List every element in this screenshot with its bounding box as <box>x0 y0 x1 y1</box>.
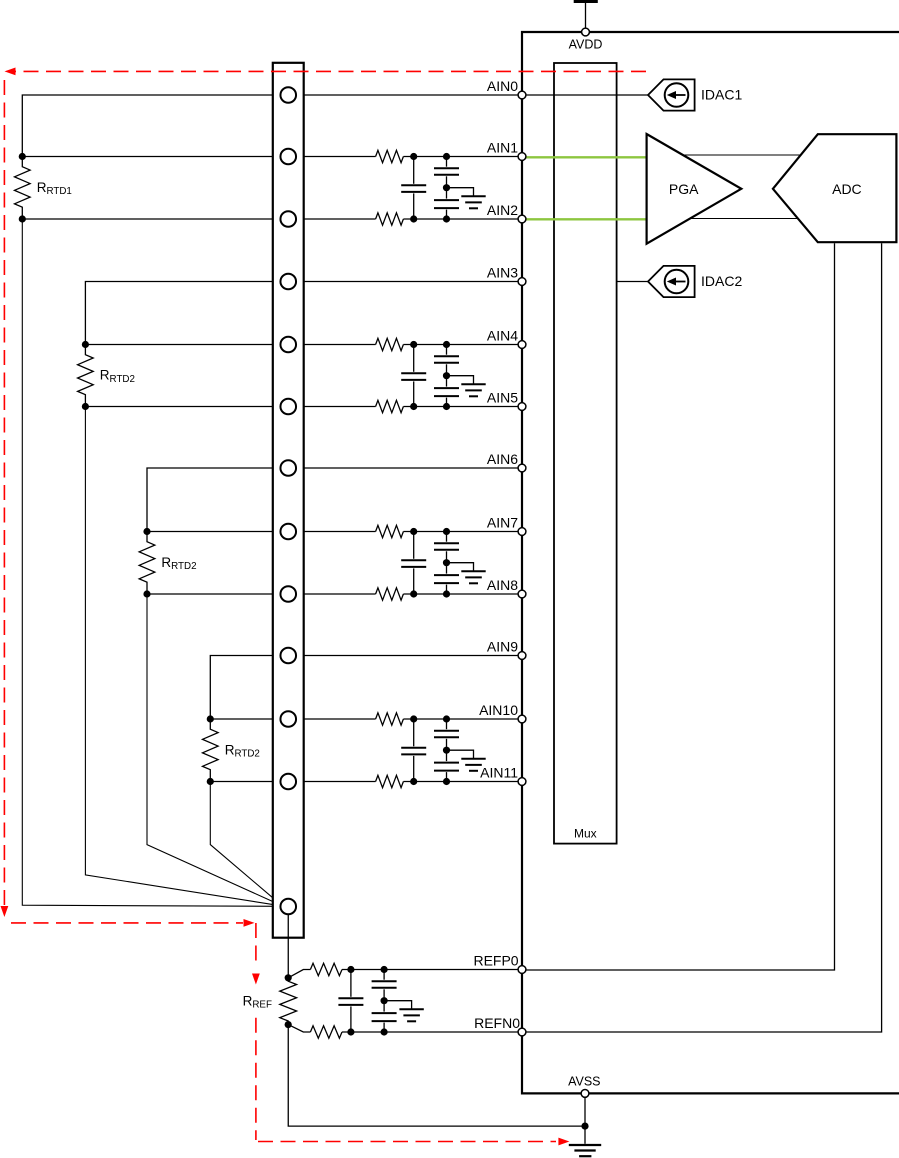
capacitor C cm-bottom 3 <box>434 563 459 594</box>
ground filter 3 <box>461 571 485 583</box>
terminal 4 <box>280 274 296 290</box>
capacitor C diff 4 <box>401 719 426 782</box>
capacitor C cm-bottom 1 <box>434 188 459 219</box>
junction RREF bottom <box>285 1021 292 1028</box>
junction AVSS rail <box>581 1123 588 1130</box>
junction refp-1 <box>347 966 354 973</box>
wire AIN9 terminal to pin <box>294 655 522 657</box>
junction refn-2 <box>381 1028 388 1035</box>
capacitor C ref diff <box>338 970 363 1033</box>
capacitor C diff 1 <box>401 157 426 220</box>
svg-text:AIN10: AIN10 <box>479 702 518 718</box>
current source IDAC1 <box>648 79 695 110</box>
resistor R REFP series <box>310 963 342 975</box>
wire 2a resistor to pin <box>403 344 522 346</box>
resistor RRTD2 <box>203 719 219 782</box>
wire to IDAC2 <box>617 281 648 283</box>
wire AIN10 terminal to filter <box>294 718 376 720</box>
node arrow down-left (red) <box>1 906 9 917</box>
wire RREF to AVSS ground rail <box>288 1025 585 1127</box>
wire return chain 2 <box>85 407 281 906</box>
terminal 10 <box>280 648 296 664</box>
resistor R filter 3b (series, bottom) <box>376 588 404 600</box>
pin AIN3 <box>518 278 526 286</box>
wire ADC to REFP0 <box>526 243 835 970</box>
capacitor C cm-bottom 2 <box>434 376 459 407</box>
svg-text:AIN3: AIN3 <box>487 265 518 281</box>
junction 2a-1 <box>410 341 417 348</box>
svg-text:RRTD2: RRTD2 <box>225 743 260 760</box>
pin AIN7 <box>518 528 526 536</box>
svg-text:RRTD2: RRTD2 <box>100 368 135 385</box>
junction chain4 top <box>207 715 214 722</box>
pin AIN11 <box>518 778 526 786</box>
wire sense top chain 4 <box>210 718 282 720</box>
ground ref filter <box>399 1009 423 1021</box>
terminal 3 <box>280 211 296 227</box>
junction 3a-2 <box>443 528 450 535</box>
wire return chain 3 <box>147 594 281 905</box>
wire return chain 4 <box>210 782 281 905</box>
wire force line AIN0 <box>22 95 282 157</box>
capacitor C cm-top 1 <box>434 157 459 188</box>
ground filter 4 <box>461 759 485 771</box>
junction chain4 bottom <box>207 778 214 785</box>
wire force line AIN6 <box>147 468 282 532</box>
multiplexer Mux box <box>554 63 617 844</box>
wire sense bottom chain 3 <box>147 593 282 595</box>
wire REFP resistor to pin <box>342 969 522 971</box>
wire PGA output bottom to ADC <box>690 218 798 220</box>
pin REFN0 <box>518 1028 526 1036</box>
wire AIN0 terminal to pin <box>294 94 522 96</box>
wire AIN3 terminal to pin <box>294 281 522 283</box>
svg-text:IDAC2: IDAC2 <box>701 273 742 289</box>
capacitor C diff 2 <box>401 345 426 407</box>
resistor R filter 3a (series, top) <box>376 525 404 537</box>
resistor RREF <box>280 978 297 1025</box>
power symbol AVDD supply bar <box>574 0 598 3</box>
wire AVSS pin to ground <box>584 1093 586 1143</box>
terminal 8 <box>280 524 296 540</box>
junction 1a-1 <box>410 153 417 160</box>
resistor R filter 2b (series, bottom) <box>376 400 404 412</box>
wire AIN11 terminal to filter <box>294 781 376 783</box>
junction 3b-2 <box>443 590 450 597</box>
junction 1b-2 <box>443 215 450 222</box>
junction 4-mid <box>443 747 450 754</box>
terminal 12 <box>280 774 296 790</box>
pin AIN0 <box>518 91 526 99</box>
wire mux route AIN2 to PGA (green) <box>523 218 647 220</box>
svg-text:ADC: ADC <box>832 181 862 197</box>
resistor R filter 4a (series, top) <box>376 713 404 725</box>
svg-text:AVSS: AVSS <box>568 1075 600 1089</box>
resistor RRTD1 <box>14 157 30 220</box>
terminal 7 <box>280 460 296 476</box>
wire sense top chain 1 <box>22 156 282 158</box>
wire 3b resistor to pin <box>403 593 522 595</box>
wire sense bottom chain 1 <box>22 218 282 220</box>
junction 2b-1 <box>410 403 417 410</box>
svg-text:AIN11: AIN11 <box>480 765 518 781</box>
capacitor C cm-top 3 <box>434 532 459 563</box>
junction chain3 top <box>143 528 150 535</box>
svg-text:AIN2: AIN2 <box>487 202 518 218</box>
pin AIN2 <box>518 215 526 223</box>
node arrow right-mid (red) <box>244 919 255 927</box>
wire RREF bottom to REFN filter <box>288 1025 310 1032</box>
svg-text:IDAC1: IDAC1 <box>701 87 742 103</box>
svg-text:AIN7: AIN7 <box>487 515 518 531</box>
wire AVDD supply to pin <box>585 2 587 30</box>
wire force line AIN9 <box>210 656 282 720</box>
wire 3a resistor to pin <box>403 531 522 533</box>
wire gnd stub 2 <box>447 376 474 385</box>
wire IDAC current path into RREF (red dashed) <box>255 923 257 966</box>
junction 1a-2 <box>443 153 450 160</box>
wire RREF top to REFP filter <box>288 970 310 978</box>
svg-text:AIN5: AIN5 <box>487 390 518 406</box>
junction RREF top <box>285 974 292 981</box>
junction chain2 bottom <box>82 403 89 410</box>
svg-text:RREF: RREF <box>243 993 272 1010</box>
resistor R filter 4b (series, bottom) <box>376 775 404 787</box>
svg-text:AIN4: AIN4 <box>487 328 518 344</box>
wire return chain 1 <box>22 219 281 906</box>
svg-text:AIN9: AIN9 <box>487 639 518 655</box>
wire IDAC current path RREF to gnd vertical (red dashed) <box>255 1018 257 1140</box>
wire 4b resistor to pin <box>403 781 522 783</box>
capacitor C diff 3 <box>401 532 426 595</box>
junction chain1 bottom <box>19 215 26 222</box>
svg-text:AVDD: AVDD <box>569 38 603 52</box>
wire ADC to REFN0 <box>526 243 882 1032</box>
wire IDAC current path left (red dashed) <box>3 80 5 905</box>
junction refp-2 <box>381 966 388 973</box>
terminal 1 <box>280 87 296 103</box>
pin AIN5 <box>518 403 526 411</box>
pin AVDD <box>582 28 590 36</box>
wire sense bottom chain 2 <box>85 406 282 408</box>
wire 1a resistor to pin <box>403 156 522 158</box>
terminal 6 <box>280 399 296 415</box>
wire AIN4 terminal to filter <box>294 344 376 346</box>
ground filter 2 <box>461 384 485 396</box>
junction 3-mid <box>443 559 450 566</box>
wire mux route AIN1 to PGA (green) <box>523 156 647 158</box>
capacitor C cm-top 4 <box>434 719 459 750</box>
svg-text:AIN1: AIN1 <box>487 140 518 156</box>
junction 1b-1 <box>410 215 417 222</box>
capacitor C ref cm-top <box>372 970 397 1001</box>
resistor R filter 2a (series, top) <box>376 338 404 350</box>
capacitor C cm-bottom 4 <box>434 750 459 781</box>
node arrow left (red) <box>5 68 16 76</box>
pin REFP0 <box>518 966 526 974</box>
terminal 9 <box>280 586 296 602</box>
wire 2b resistor to pin <box>403 406 522 408</box>
junction refn-1 <box>347 1028 354 1035</box>
wire terminal 13 to RREF <box>287 914 289 978</box>
wire force line AIN3 <box>85 282 282 345</box>
wire PGA output top to ADC <box>683 154 801 156</box>
wire to IDAC1 <box>526 94 648 96</box>
wire IDAC current path bottom-left (red dashed) <box>11 922 243 924</box>
wire REFN resistor to pin <box>342 1031 522 1033</box>
junction 2-mid <box>443 372 450 379</box>
svg-text:Mux: Mux <box>574 827 597 841</box>
pin AIN4 <box>518 341 526 349</box>
wire AIN1 terminal to filter <box>294 156 376 158</box>
wire 1b resistor to pin <box>403 218 522 220</box>
wire AIN2 terminal to filter <box>294 218 376 220</box>
wire sense top chain 2 <box>85 344 282 346</box>
terminal 5 <box>280 337 296 353</box>
wire AIN6 terminal to pin <box>294 467 522 469</box>
wire AIN8 terminal to filter <box>294 593 376 595</box>
svg-text:REFN0: REFN0 <box>474 1015 520 1031</box>
junction 1-mid <box>443 184 450 191</box>
capacitor C ref cm-bottom <box>372 1001 397 1032</box>
wire AIN5 terminal to filter <box>294 406 376 408</box>
resistor RRTD2 <box>78 345 94 407</box>
wire ref gnd stub <box>384 1001 412 1010</box>
svg-text:RRTD1: RRTD1 <box>37 180 72 197</box>
wire IDAC current path top (red dashed) <box>15 70 646 72</box>
resistor R REFN series <box>310 1026 342 1038</box>
junction 4a-2 <box>443 715 450 722</box>
ADC block <box>773 134 897 242</box>
junction chain3 bottom <box>143 590 150 597</box>
current source IDAC2 <box>648 266 695 297</box>
junction ref-mid <box>381 997 388 1004</box>
wire sense top chain 3 <box>147 531 282 533</box>
junction chain2 top <box>82 341 89 348</box>
pin AIN6 <box>518 464 526 472</box>
wire gnd stub 1 <box>447 188 474 197</box>
wire gnd stub 4 <box>447 750 474 759</box>
svg-text:AIN6: AIN6 <box>487 451 518 467</box>
connector terminal block <box>273 63 304 938</box>
pin AIN10 <box>518 715 526 723</box>
junction 3b-1 <box>410 590 417 597</box>
junction 2b-2 <box>443 403 450 410</box>
node arrow down RREF (red) <box>252 974 260 985</box>
terminal 13 (return) <box>280 899 296 915</box>
resistor R filter 1b (series, bottom) <box>376 213 404 225</box>
pin AIN9 <box>518 652 526 660</box>
ADC chip boundary box <box>522 32 899 1093</box>
pin AIN1 <box>518 153 526 161</box>
junction 2a-2 <box>443 341 450 348</box>
junction 4b-1 <box>410 778 417 785</box>
wire AIN7 terminal to filter <box>294 531 376 533</box>
svg-text:REFP0: REFP0 <box>473 953 518 969</box>
ground AVSS earth <box>569 1145 601 1156</box>
pin AIN8 <box>518 590 526 598</box>
pin AVSS <box>581 1090 589 1098</box>
wire IDAC current path to AVSS gnd (red dashed) <box>258 1141 556 1143</box>
svg-text:AIN8: AIN8 <box>487 577 518 593</box>
ground filter 1 <box>461 196 485 208</box>
resistor RRTD2 <box>139 532 155 595</box>
svg-text:RRTD2: RRTD2 <box>161 555 196 572</box>
wire gnd stub 3 <box>447 563 474 572</box>
node arrow right AVSS (red) <box>558 1138 569 1146</box>
terminal 11 <box>280 711 296 727</box>
junction 3a-1 <box>410 528 417 535</box>
junction 4b-2 <box>443 778 450 785</box>
resistor R filter 1a (series, top) <box>376 150 404 162</box>
svg-text:PGA: PGA <box>669 181 699 197</box>
wire sense bottom chain 4 <box>210 781 282 783</box>
op-amp PGA <box>647 134 742 244</box>
junction 4a-1 <box>410 715 417 722</box>
wire 4a resistor to pin <box>403 718 522 720</box>
capacitor C cm-top 2 <box>434 345 459 376</box>
terminal 2 <box>280 149 296 165</box>
svg-text:AIN0: AIN0 <box>487 78 518 94</box>
junction chain1 top <box>19 153 26 160</box>
